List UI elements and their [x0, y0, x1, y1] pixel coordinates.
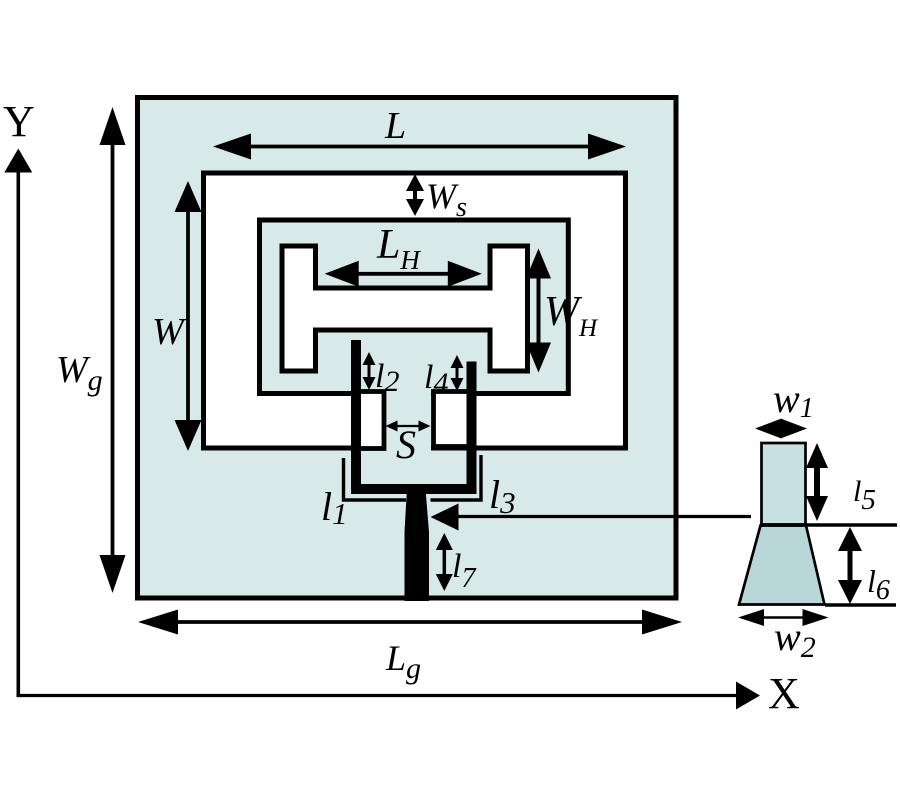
arrow WH: [537, 276, 541, 345]
arrow w2: [760, 616, 806, 619]
arrow Ws: [413, 188, 417, 201]
arrow L: [248, 145, 592, 149]
reference line trapezoid bottom: [825, 603, 896, 607]
feed fork bottom bar: [351, 484, 477, 494]
arrow l7: [443, 546, 447, 578]
svg-text:S: S: [396, 422, 416, 467]
arrow l5: [814, 462, 820, 502]
feed gap strip: [384, 388, 431, 456]
svg-text:W: W: [152, 311, 187, 353]
ground plane: [138, 98, 677, 599]
arrow W: [186, 210, 190, 422]
arrow S: [395, 425, 421, 427]
right notch: [434, 392, 470, 447]
H-shaped slot: [282, 246, 528, 371]
matching bracket left: [344, 458, 407, 500]
feed line taper: [405, 488, 430, 601]
arrow w1: [770, 425, 792, 433]
arrow Wg: [111, 142, 115, 558]
reference line l5/l6 junction: [760, 523, 897, 527]
slot rectangle (white): [204, 173, 626, 448]
arrow LH: [356, 272, 450, 276]
Y axis: [16, 165, 20, 696]
arrow Lg: [174, 620, 646, 624]
left notch: [358, 392, 385, 449]
stub taper trapezoid: [739, 526, 825, 605]
feed fork left prong: [351, 340, 361, 494]
stub w1 rectangle: [762, 443, 806, 525]
svg-text:L: L: [384, 105, 406, 147]
X axis: [17, 694, 741, 697]
pointer arrow to feed: [456, 515, 751, 518]
inner patch rectangle: [260, 220, 569, 394]
matching bracket right: [431, 455, 482, 500]
svg-text:X: X: [768, 669, 800, 718]
svg-text:Y: Y: [3, 97, 35, 146]
arrow l6: [848, 548, 853, 583]
feed fork right prong: [467, 362, 477, 495]
arrow l4: [456, 365, 459, 381]
arrow l2: [368, 362, 371, 380]
